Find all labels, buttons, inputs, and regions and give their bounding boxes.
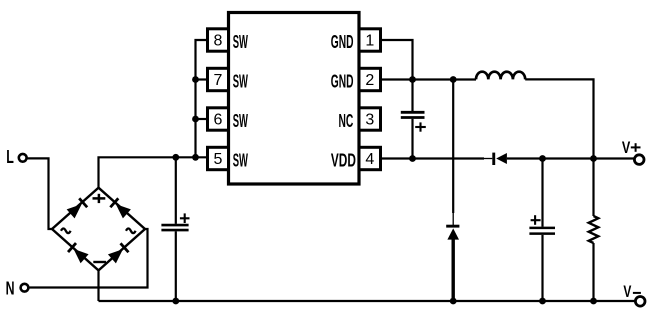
wire bridge bottom to rail (97, 270, 99, 301)
wire pin1 to GND node (381, 40, 413, 80)
bridge minus mark (93, 261, 106, 263)
terminal V- (623, 282, 645, 306)
svg-text:VDD: VDD (331, 151, 356, 171)
svg-text:5: 5 (214, 151, 223, 168)
junction pin5 bus (192, 154, 199, 161)
svg-text:4: 4 (365, 151, 374, 168)
svg-text:N: N (6, 279, 15, 299)
pin 6 (208, 108, 229, 130)
svg-text:1: 1 (365, 33, 374, 50)
junction GND node A (409, 76, 416, 83)
wire N to bridge (29, 229, 148, 288)
svg-text:GND: GND (331, 32, 354, 52)
bridge tilde right (126, 229, 136, 234)
junction R1 rail (590, 298, 597, 305)
wire L1 to V+ corner (525, 79, 593, 158)
svg-text:SW: SW (233, 151, 248, 171)
junction pin6 bus (192, 116, 199, 123)
capacitor C2 (401, 80, 426, 159)
junction GND node B (450, 76, 457, 83)
junction VDD-C2 (409, 155, 416, 162)
svg-text:L: L (6, 147, 14, 167)
diode BR1 bottom-right (108, 242, 130, 263)
svg-text:SW: SW (233, 72, 248, 92)
diode BR1 top-left (67, 197, 89, 218)
svg-text:3: 3 (365, 112, 374, 129)
capacitor C1 (161, 157, 189, 301)
wire pin7 stub (196, 78, 208, 80)
svg-text:SW: SW (233, 111, 248, 131)
terminal V+ (622, 138, 644, 165)
inductor L1 (476, 72, 525, 80)
diode D2 (446, 212, 459, 301)
pin 2 (359, 68, 381, 90)
bridge plus mark (93, 194, 106, 203)
bridge tilde left (61, 229, 71, 234)
terminal L (6, 147, 26, 167)
junction D2 rail (450, 298, 457, 305)
pin 8 (208, 29, 229, 51)
pin 4 (359, 147, 381, 169)
junction V+ node (590, 155, 597, 162)
wire pin6 stub (196, 118, 208, 120)
junction C3 rail (539, 298, 546, 305)
pin 3 (359, 108, 381, 130)
svg-text:2: 2 (365, 72, 374, 89)
terminal N (6, 279, 29, 299)
diode D1 (484, 153, 594, 165)
pin 1 (359, 29, 381, 51)
junction pin7 bus (192, 76, 199, 83)
wire pin4 VDD line (381, 157, 485, 159)
junction C3 top (539, 155, 546, 162)
junction C1 bottom (172, 298, 179, 305)
pin 7 (208, 68, 229, 90)
svg-text:SW: SW (233, 32, 248, 52)
resistor R1 (589, 159, 599, 302)
wire V+ (594, 157, 635, 159)
wire left pin bus (196, 40, 208, 157)
svg-text:V: V (622, 138, 631, 157)
diode BR1 top-right (109, 197, 131, 218)
wire bottom rail (99, 300, 636, 302)
svg-text:6: 6 (214, 112, 223, 129)
junction C1 top (172, 154, 179, 161)
IC U1 (229, 13, 360, 185)
svg-text:7: 7 (214, 72, 223, 89)
wire GND node B down (452, 80, 454, 214)
wire bridge top to bus (99, 157, 208, 187)
wire L to bridge (27, 158, 53, 229)
diode BR1 bottom-left (67, 242, 89, 263)
capacitor C3 (529, 159, 555, 302)
bridge rectifier BR1 (52, 188, 145, 271)
svg-text:V: V (623, 282, 631, 301)
svg-text:NC: NC (339, 111, 354, 131)
svg-text:GND: GND (331, 72, 354, 92)
svg-text:8: 8 (214, 33, 223, 50)
wire pin2 GND line (381, 78, 477, 80)
pin 5 (208, 147, 229, 169)
